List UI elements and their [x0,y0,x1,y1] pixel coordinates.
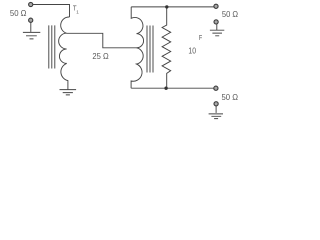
wire: upper-right port lower terminal to ground [216,24,218,30]
wire: 25-ohm tap connection [67,33,137,48]
svg-text:1: 1 [76,10,79,15]
svg-text:50 Ω: 50 Ω [222,10,238,19]
ground (lower right port) [209,114,223,119]
terminal: left port return [29,18,33,22]
transformer T1 core (right, 3 bars) [147,26,153,73]
transformer T1 core (left, 3 bars) [49,25,55,68]
junction node (top, resistor to top rail) [165,5,168,8]
ground (upper right port) [210,30,224,36]
wire: bottom rail to lower-right port [131,87,213,89]
svg-text:25 Ω: 25 Ω [92,51,108,61]
ground (below T1 primary) [60,90,77,95]
transformer T1 primary winding (left, 4 loops) [59,17,70,90]
wire: left input rail [33,5,70,18]
resistor 10 [162,7,171,88]
transformer T1 secondary winding (right, 4 loops) [131,7,143,88]
terminal: lower right port return [214,102,218,106]
junction node (bottom, resistor to bottom rail) [164,87,167,90]
terminal: lower right port signal [214,86,218,90]
terminal: upper right port signal [214,4,218,8]
terminal: upper right port return [214,20,218,24]
svg-text:F: F [199,35,202,42]
terminal: left port signal [29,2,33,6]
ground (left port) [23,32,40,39]
svg-text:50 Ω: 50 Ω [222,93,239,102]
wire: top rail to upper-right port [131,6,214,8]
svg-text:10: 10 [188,47,196,56]
wire: lower-right port lower terminal to ground [215,106,217,113]
svg-text:50 Ω: 50 Ω [10,9,27,18]
wire: left port lower terminal to ground [30,22,32,32]
